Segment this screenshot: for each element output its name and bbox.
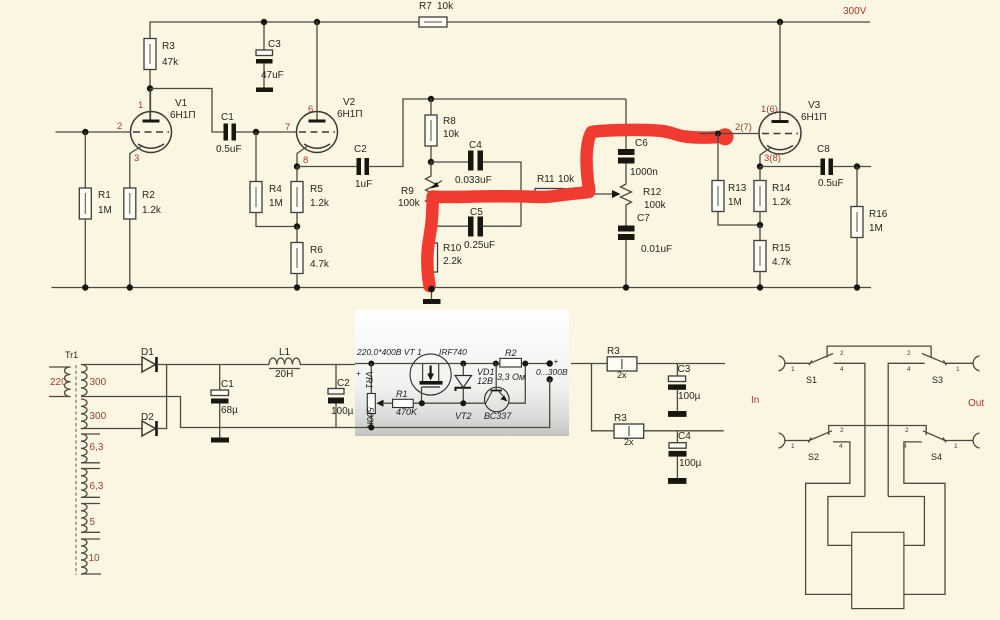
- diode D2: [141, 412, 157, 436]
- pin 3 of V1: [134, 153, 139, 164]
- svg-text:1: 1: [954, 443, 958, 450]
- pin 6 of V2: [308, 104, 313, 115]
- switch S4: [923, 431, 974, 462]
- svg-text:300: 300: [90, 377, 107, 388]
- ground: chassis bar under C4 (psu): [668, 478, 687, 484]
- svg-text:V2: V2: [343, 97, 356, 108]
- svg-text:4: 4: [907, 366, 911, 373]
- node: V2 cathode junction: [294, 163, 300, 169]
- potentiometer R9 100k: [398, 162, 442, 243]
- capacitor C2 electrolytic 100u: [328, 365, 354, 428]
- wire: S2 throw 4 to outer left loop: [806, 442, 852, 595]
- svg-text:220,0*400В VT 1: 220,0*400В VT 1: [356, 347, 422, 357]
- resistor R14: [754, 167, 792, 226]
- jack output S4: [973, 433, 979, 448]
- svg-text:4.7k: 4.7k: [310, 259, 330, 270]
- label IRF740: [439, 347, 467, 357]
- wire: upper R3 to C3: [637, 363, 725, 365]
- pin 4 of S2: [839, 443, 843, 450]
- svg-text:R7: R7: [419, 1, 432, 12]
- label 10 winding: [89, 553, 101, 564]
- jack output S3: [973, 356, 979, 371]
- wire: C8 to output: [833, 166, 871, 168]
- wire: S1 vertical to inner left loop: [828, 497, 865, 546]
- label Out: [968, 398, 984, 409]
- svg-text:R13: R13: [728, 183, 747, 194]
- svg-text:2: 2: [840, 427, 844, 434]
- mosfet VT1 IRF740: [410, 354, 451, 403]
- wire: box top rail: [355, 363, 500, 365]
- pin 1 of S4: [954, 443, 958, 450]
- potentiometer R12 100k: [621, 99, 667, 226]
- label 6,3 second: [90, 481, 104, 492]
- svg-text:In: In: [751, 395, 759, 406]
- wire: V3 cathode to C8: [760, 166, 821, 168]
- svg-text:S3: S3: [932, 375, 943, 385]
- resistor R16: [851, 167, 888, 288]
- svg-text:R2: R2: [142, 190, 155, 201]
- svg-text:2: 2: [907, 350, 911, 357]
- svg-text:VR1: VR1: [364, 371, 374, 389]
- svg-text:R5: R5: [310, 184, 323, 195]
- svg-text:R2: R2: [505, 348, 517, 358]
- wire: R11 arrow to R12 wiper: [594, 190, 621, 198]
- node: V2 grid junction at R4: [253, 129, 259, 135]
- svg-text:100µ: 100µ: [679, 458, 702, 469]
- transformer Tr1 core: [75, 365, 77, 575]
- svg-text:100µ: 100µ: [678, 391, 701, 402]
- pin 2 of S2: [840, 427, 844, 434]
- node: top rail at V3 anode: [777, 19, 783, 25]
- resistor R6: [291, 227, 330, 288]
- transformer Tr1 winding 10: [81, 539, 101, 574]
- wire: C5 to right vertical: [483, 225, 521, 227]
- svg-text:220: 220: [50, 377, 67, 388]
- node: output junction at R16: [854, 163, 860, 169]
- svg-text:C5: C5: [470, 207, 483, 218]
- svg-text:2x: 2x: [617, 370, 627, 380]
- transformer Tr1 winding 5: [81, 504, 100, 533]
- svg-text:1M: 1M: [728, 197, 742, 208]
- jack input S1: [779, 356, 785, 371]
- label In: [751, 395, 759, 406]
- node: VR1 top: [368, 361, 374, 367]
- node: VT2 base junction on rail: [493, 361, 499, 367]
- svg-text:R3: R3: [162, 41, 175, 52]
- tube V2 6N1P triode: [297, 22, 363, 167]
- wire: junction to C4: [431, 161, 468, 163]
- wire: R9/R10 junction to C5: [431, 225, 468, 227]
- wire: VT2 emitter to R2 right: [509, 364, 526, 404]
- ground: chassis bar under C3 (psu): [668, 411, 687, 417]
- node: VD1 top: [460, 361, 466, 367]
- pin 8 of V2: [303, 155, 308, 166]
- svg-text:1: 1: [956, 366, 960, 373]
- wire: lower 300 winding to D2: [81, 428, 142, 430]
- svg-text:300: 300: [90, 411, 107, 422]
- svg-text:R8: R8: [443, 116, 456, 127]
- svg-text:47uF: 47uF: [261, 70, 284, 81]
- svg-text:C1: C1: [221, 112, 234, 123]
- svg-text:D1: D1: [141, 347, 154, 358]
- node: output plus terminal: [547, 357, 559, 367]
- svg-text:V3: V3: [808, 100, 821, 111]
- svg-text:5: 5: [90, 517, 96, 528]
- pin 2 of S1: [840, 350, 844, 357]
- transformer Tr1: [65, 350, 78, 360]
- resistor R3: [144, 39, 179, 70]
- svg-text:C2: C2: [337, 378, 350, 389]
- resistor R7: [419, 1, 454, 27]
- ground: chassis bar below rail: [423, 289, 441, 304]
- svg-text:1.2k: 1.2k: [772, 197, 792, 208]
- node: V3 grid junction dot: [715, 131, 721, 137]
- resistor R3 2x (lower): [614, 413, 644, 447]
- tube V3 6N1P triode: [759, 22, 827, 167]
- capacitor C1: [216, 112, 242, 155]
- label 6,3 first: [90, 442, 104, 453]
- wire: V3 grid wire over red: [700, 133, 759, 135]
- pin 1 of S3: [956, 366, 960, 373]
- resistor R8: [425, 99, 460, 162]
- wire: D2 output up to D1 line: [157, 365, 167, 429]
- wire: lower R3 to C4: [644, 430, 724, 432]
- node: R4/R5/R6 junction: [294, 223, 300, 229]
- regulator inset box: [355, 310, 569, 436]
- svg-text:R3: R3: [614, 413, 627, 424]
- wire: R1 to VT1 gate and VD1: [413, 402, 486, 404]
- svg-text:1: 1: [138, 100, 143, 111]
- svg-text:10: 10: [89, 553, 101, 564]
- svg-text:R1: R1: [98, 190, 111, 201]
- svg-text:VT2: VT2: [455, 411, 472, 421]
- svg-text:Out: Out: [968, 398, 984, 409]
- resistor R13: [712, 134, 760, 226]
- node: R2 right junction: [522, 361, 528, 367]
- svg-text:C4: C4: [678, 431, 691, 442]
- svg-text:V1: V1: [175, 98, 188, 109]
- wire: R9 wiper to R11 (under red mark): [441, 193, 521, 195]
- capacitor C4 electrolytic 100u (psu): [669, 431, 702, 478]
- node: rail at R16: [854, 284, 860, 290]
- jack input S2: [779, 433, 785, 448]
- svg-text:1.2k: 1.2k: [142, 205, 162, 216]
- label 300V net: [843, 6, 867, 17]
- node: R8 top junction: [428, 96, 434, 102]
- wire: bottom ground rail: [52, 287, 872, 289]
- potentiometer VR1 500K: [367, 364, 392, 428]
- ground: chassis bar under C3: [256, 88, 273, 93]
- switch S2: [785, 431, 833, 462]
- svg-text:0.5uF: 0.5uF: [818, 178, 844, 189]
- wire: S3 vertical to inner right loop: [888, 497, 924, 546]
- svg-text:S2: S2: [808, 452, 819, 462]
- svg-text:IRF740: IRF740: [439, 347, 467, 357]
- svg-text:0.25uF: 0.25uF: [464, 240, 495, 251]
- capacitor C6: [618, 138, 658, 178]
- label 500K rotated: [365, 407, 375, 429]
- node: rail at R1: [82, 284, 88, 290]
- wire: branch down to lower R3: [592, 364, 615, 431]
- svg-text:20H: 20H: [275, 369, 293, 380]
- svg-text:8: 8: [303, 155, 308, 166]
- node: rail at R6: [294, 284, 300, 290]
- svg-text:+: +: [554, 357, 559, 366]
- svg-text:4: 4: [839, 443, 843, 450]
- svg-text:2x: 2x: [624, 437, 634, 447]
- svg-text:+: +: [356, 369, 361, 378]
- svg-text:6,3: 6,3: [90, 481, 104, 492]
- svg-text:4.7k: 4.7k: [772, 257, 792, 268]
- svg-text:100k: 100k: [644, 200, 667, 211]
- pin 1 of S1: [791, 366, 795, 373]
- transformer Tr1 primary winding 220: [49, 367, 71, 397]
- capacitor C3: [256, 22, 284, 88]
- svg-text:C1: C1: [221, 379, 234, 390]
- wire: center tap return line: [81, 397, 355, 428]
- wire: input line to V1 grid: [56, 131, 131, 133]
- svg-text:ВС337: ВС337: [484, 411, 512, 421]
- svg-text:2: 2: [905, 427, 909, 434]
- svg-text:Tr1: Tr1: [65, 350, 78, 360]
- resistor R2: [124, 188, 162, 288]
- wire: R2 to output plus: [521, 363, 550, 365]
- zener diode VD1 12V: [455, 364, 495, 404]
- svg-text:470K: 470K: [396, 407, 418, 417]
- node: VD1 bottom junction: [460, 400, 466, 406]
- node: VT1 gate junction: [419, 400, 425, 406]
- wire: S2-S4 bridge: [829, 426, 927, 436]
- svg-text:12В: 12В: [477, 376, 493, 386]
- svg-text:R12: R12: [643, 187, 662, 198]
- wire: V2 cathode to C2: [297, 166, 357, 168]
- ground: chassis bar under C1: [211, 438, 229, 443]
- resistor R3 2x (upper): [607, 346, 637, 380]
- transformer Tr1 winding 6,3 (first): [81, 434, 100, 463]
- svg-text:1: 1: [791, 366, 795, 373]
- wire: upper 300 winding to D1: [81, 364, 142, 366]
- transistor VT2 BC337: [455, 364, 512, 422]
- svg-text:3(8): 3(8): [764, 153, 781, 164]
- switch S1: [785, 354, 834, 386]
- svg-text:2.2k: 2.2k: [443, 256, 463, 267]
- svg-text:10k: 10k: [443, 129, 460, 140]
- svg-text:R16: R16: [869, 209, 888, 220]
- resistor R5: [291, 167, 330, 227]
- wire: S1-S3 top bridge: [827, 346, 931, 357]
- pin 7 of V2: [285, 122, 290, 133]
- svg-text:10k: 10k: [558, 174, 575, 185]
- label 300 winding upper: [90, 377, 107, 388]
- svg-text:R4: R4: [269, 184, 282, 195]
- svg-text:7: 7: [285, 122, 290, 133]
- svg-text:1uF: 1uF: [355, 179, 372, 190]
- svg-text:R14: R14: [772, 183, 791, 194]
- pin 2 of S4: [905, 427, 909, 434]
- svg-text:1.2k: 1.2k: [310, 198, 330, 209]
- red annotation highlight path: [427, 128, 733, 286]
- svg-text:R6: R6: [310, 245, 323, 256]
- wire: S1 throw 4 contact: [834, 363, 865, 496]
- pin 2 of V1: [117, 121, 122, 132]
- wire: C2 up to feedback top line: [369, 99, 626, 167]
- node: rail at R10: [428, 286, 435, 293]
- load box: [852, 532, 904, 608]
- svg-text:R11: R11: [537, 174, 555, 185]
- svg-text:0.5uF: 0.5uF: [216, 144, 242, 155]
- wire: box bottom return line: [355, 379, 550, 427]
- svg-text:R3: R3: [607, 346, 620, 357]
- capacitor C5: [464, 207, 495, 251]
- svg-text:3,3 Ом: 3,3 Ом: [497, 372, 525, 382]
- svg-text:C4: C4: [469, 140, 482, 151]
- svg-text:68µ: 68µ: [221, 405, 238, 416]
- label 220,0*400V VT1: [356, 347, 422, 357]
- switch S3: [922, 354, 974, 386]
- svg-text:6Н1П: 6Н1П: [801, 112, 827, 123]
- svg-text:C2: C2: [354, 144, 367, 155]
- resistor R15: [754, 225, 792, 288]
- label 300 winding lower: [90, 411, 107, 422]
- svg-text:2: 2: [117, 121, 122, 132]
- svg-text:0...300В: 0...300В: [536, 367, 568, 377]
- wire: top B+ rail 300V: [150, 22, 870, 39]
- resistor R1 (regulator): [393, 389, 418, 417]
- svg-text:R10: R10: [443, 243, 462, 254]
- diode D1: [141, 347, 157, 372]
- capacitor C1 electrolytic 68u: [211, 365, 238, 438]
- svg-text:6: 6: [308, 104, 313, 115]
- label 220 winding: [50, 377, 67, 388]
- svg-text:0.033uF: 0.033uF: [455, 175, 492, 186]
- capacitor C8: [817, 144, 844, 189]
- svg-text:6Н1П: 6Н1П: [337, 109, 363, 120]
- svg-text:C3: C3: [268, 39, 281, 50]
- svg-text:6Н1П: 6Н1П: [170, 110, 196, 121]
- svg-text:3: 3: [134, 153, 139, 164]
- capacitor C7: [618, 213, 672, 288]
- pin 1(6) of V3: [761, 104, 778, 115]
- pin 4 of S1: [840, 366, 844, 373]
- transformer Tr1 winding 6,3 (second): [81, 469, 100, 498]
- node: VR1 bottom: [368, 425, 374, 431]
- svg-text:R15: R15: [772, 243, 791, 254]
- svg-text:C8: C8: [817, 144, 830, 155]
- svg-text:S4: S4: [931, 452, 942, 462]
- svg-text:1M: 1M: [269, 198, 283, 209]
- transformer Tr1 secondary winding 300 (lower): [81, 399, 87, 429]
- node: input junction at R1: [82, 129, 88, 135]
- node: V3 cathode junction: [757, 163, 763, 169]
- svg-text:300V: 300V: [843, 6, 867, 17]
- node: output minus terminal: [547, 376, 553, 382]
- wire: S4 throw 4 to outer right loop: [904, 442, 945, 595]
- inductor L1 20H: [269, 347, 300, 380]
- svg-text:4: 4: [840, 366, 844, 373]
- pin 2 of S3: [907, 350, 911, 357]
- svg-text:2: 2: [840, 350, 844, 357]
- wire: S3 throw 4 contact: [888, 363, 924, 496]
- node: top rail at C3: [261, 19, 267, 25]
- capacitor C3 electrolytic 100u (psu): [668, 364, 701, 412]
- svg-text:100k: 100k: [398, 198, 421, 209]
- node: top rail at V2 anode: [314, 19, 320, 25]
- svg-text:L1: L1: [279, 347, 291, 358]
- svg-text:C3: C3: [678, 364, 691, 375]
- node: R8/R9/C4 junction: [428, 159, 434, 165]
- svg-text:1M: 1M: [98, 205, 112, 216]
- svg-text:R1: R1: [396, 389, 408, 399]
- node: rail at R15: [757, 284, 763, 290]
- svg-text:0.01uF: 0.01uF: [641, 244, 672, 255]
- node: rail at R2: [127, 284, 133, 290]
- wire: L1 to regulator box: [300, 364, 355, 366]
- capacitor C2: [354, 144, 372, 190]
- svg-text:47k: 47k: [162, 57, 179, 68]
- tube V1 6N1P triode: [130, 89, 196, 189]
- resistor R11: [521, 174, 594, 199]
- svg-text:1(6): 1(6): [761, 104, 778, 115]
- wire: D1 output to filter: [157, 364, 270, 366]
- wire: R3 bottom to V1 anode: [149, 70, 151, 120]
- capacitor C4: [455, 140, 492, 186]
- pin 4 of S4: [903, 443, 907, 450]
- wire: C1 to V2 grid: [236, 131, 297, 133]
- resistor R1: [79, 132, 112, 288]
- svg-text:1: 1: [791, 443, 795, 450]
- node: R13/R14/R15 junction: [757, 222, 763, 228]
- label 5 winding: [90, 517, 96, 528]
- svg-text:1000n: 1000n: [630, 167, 658, 178]
- svg-text:R9: R9: [401, 186, 414, 197]
- wire: supply line to R3 filters: [571, 363, 607, 365]
- pin 4 of S3: [907, 366, 911, 373]
- svg-text:D2: D2: [141, 412, 154, 423]
- label plus mark at VR1: [356, 369, 361, 378]
- svg-text:10k: 10k: [437, 1, 454, 12]
- svg-text:1M: 1M: [869, 223, 883, 234]
- svg-text:C7: C7: [637, 213, 650, 224]
- label VR1 rotated: [364, 371, 374, 389]
- resistor R4: [250, 132, 297, 227]
- pin 3(8) of V3: [764, 153, 781, 164]
- svg-text:C6: C6: [635, 138, 648, 149]
- transformer Tr1 secondary winding 300 (upper): [81, 365, 87, 396]
- label 0...300V: [536, 367, 568, 377]
- node: V1 anode junction: [147, 85, 153, 91]
- node: rail at C7: [623, 284, 629, 290]
- svg-text:2(7): 2(7): [735, 122, 752, 133]
- resistor R2 (regulator) 3.3 Ohm: [497, 348, 525, 382]
- pin 2(7) of V3: [735, 122, 752, 133]
- wire: C4 to right vertical: [483, 162, 521, 226]
- wire: V1 anode to C1: [150, 89, 224, 133]
- svg-text:100µ: 100µ: [331, 406, 354, 417]
- svg-text:S1: S1: [806, 375, 817, 385]
- pin 1 of S2: [791, 443, 795, 450]
- pin 1 of V1: [138, 100, 143, 111]
- svg-text:6,3: 6,3: [90, 442, 104, 453]
- resistor R10: [426, 243, 463, 288]
